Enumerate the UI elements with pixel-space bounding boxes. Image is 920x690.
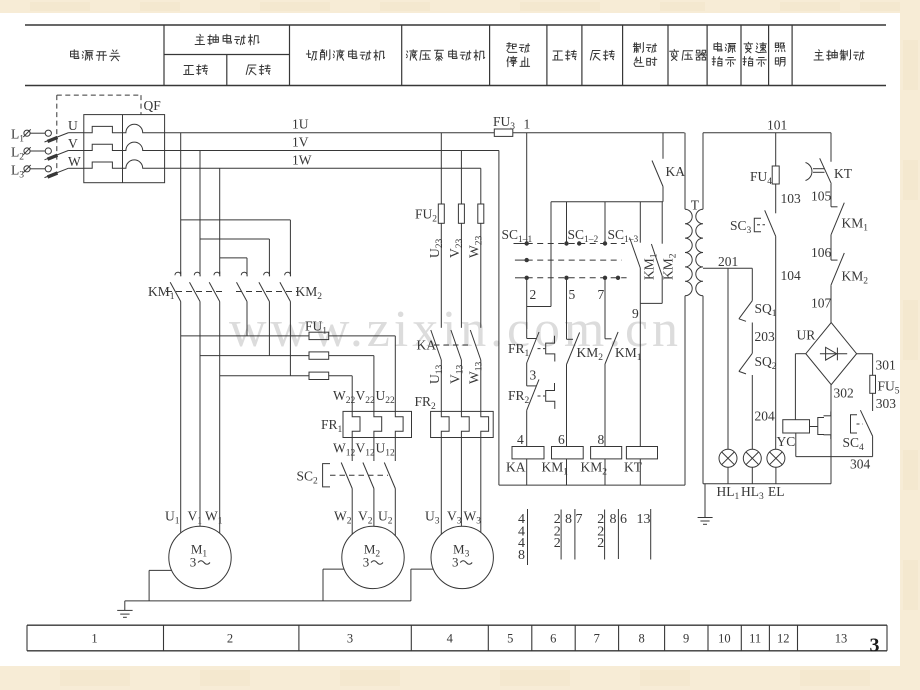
- motor M3: [431, 526, 493, 588]
- bottom column strip: [27, 624, 887, 626]
- contactor KM2 main contact 3: [285, 272, 291, 277]
- lamp EL: [767, 449, 785, 467]
- wire 204: [751, 375, 753, 449]
- wire 201 to HL1: [727, 268, 729, 449]
- wire KM2-1 to U node: [246, 302, 248, 336]
- svg-text:4: 4: [447, 632, 454, 646]
- svg-text:303: 303: [876, 396, 897, 411]
- wire 101 to FU4: [775, 133, 777, 166]
- FR2 heater element: [441, 411, 449, 437]
- wire 201: [703, 267, 752, 269]
- KM1 linkage: [166, 291, 226, 293]
- wire W22: [351, 376, 353, 412]
- wire V2: [373, 489, 375, 527]
- clutch coil YC: [783, 420, 810, 433]
- wire into QF phase 3: [69, 167, 84, 169]
- wire 1U after FU3 (line 1): [513, 132, 685, 134]
- wire number tally: [527, 509, 529, 565]
- FR1 heater element: [374, 411, 382, 437]
- wire 303: [872, 393, 874, 411]
- wire 2: [526, 278, 528, 339]
- fuse FU1 b: [309, 352, 329, 359]
- svg-text:6: 6: [550, 632, 556, 646]
- svg-text:9: 9: [683, 632, 689, 646]
- lamp HL1: [719, 449, 737, 467]
- svg-text:1W: 1W: [292, 152, 312, 167]
- svg-text:5: 5: [569, 287, 576, 302]
- wire KM2-3 to W node: [289, 302, 291, 376]
- wire U node to FU1a: [181, 335, 309, 337]
- svg-text:1V: 1V: [292, 135, 309, 150]
- contactor KM1 main contact 1: [175, 272, 181, 277]
- wire riser: [550, 202, 552, 307]
- wire 7: [604, 278, 606, 339]
- QF switch blade phase 2: [45, 150, 69, 159]
- wire 104: [775, 236, 777, 449]
- contactor KM1 main contact 3: [214, 272, 220, 277]
- SC1 contact dot: [577, 241, 581, 245]
- fuse FU1 c: [309, 372, 329, 379]
- wire coil bottom rail: [499, 484, 685, 486]
- svg-text:4: 4: [517, 432, 524, 447]
- svg-text:201: 201: [718, 254, 738, 269]
- wire W drop: [219, 168, 221, 274]
- QF thermal element: [84, 144, 123, 150]
- QF magnetic element: [123, 160, 165, 168]
- motor M2: [342, 526, 404, 588]
- svg-text:302: 302: [834, 386, 854, 401]
- fuse FU4: [772, 166, 779, 184]
- wire secondary bottom rail: [703, 483, 831, 485]
- KM2 NC brake contact: [831, 259, 838, 261]
- wire rail to SC1-2 column: [566, 202, 568, 244]
- FR1 NC contact: [527, 338, 537, 340]
- svg-text:10: 10: [718, 632, 731, 646]
- svg-text:105: 105: [811, 189, 832, 204]
- wire T secondary bottom: [702, 296, 704, 484]
- position switch SQ2: [739, 353, 752, 371]
- svg-text:6: 6: [620, 512, 627, 527]
- wire U23 upper: [440, 133, 442, 204]
- motor M1: [169, 526, 231, 588]
- svg-text:203: 203: [755, 329, 776, 344]
- wire 203: [751, 323, 753, 354]
- wire W node to FU1c: [220, 375, 309, 377]
- wire left rail from 1V: [498, 151, 500, 486]
- wire KT coil to rail: [639, 459, 641, 485]
- switch SC3: [754, 218, 761, 231]
- QF magnetic element: [123, 124, 165, 132]
- svg-text:3: 3: [452, 555, 459, 570]
- ground symbol motors: [124, 601, 126, 611]
- svg-text:13: 13: [835, 632, 848, 646]
- wire jog to column 2: [527, 306, 551, 308]
- fuse FU2 a: [438, 204, 444, 223]
- wire V22: [373, 356, 375, 412]
- position switch SQ1: [739, 301, 752, 319]
- svg-text:2: 2: [597, 536, 604, 551]
- svg-text:YC: YC: [777, 434, 796, 449]
- svg-text:3: 3: [870, 635, 880, 657]
- QF thermal element: [84, 162, 123, 168]
- wire 6: [566, 365, 568, 447]
- SC1 contact dot: [525, 241, 529, 245]
- SC2 blade 1: [341, 463, 352, 489]
- wire T secondary to 101: [702, 133, 704, 210]
- rectifier UR: [806, 323, 857, 385]
- relay coil KA: [512, 447, 544, 459]
- wire 8: [604, 364, 606, 447]
- KM1 NO aux contact: [630, 238, 641, 269]
- switch SC1 row 2: [515, 259, 527, 261]
- ground symbol control: [704, 484, 706, 518]
- wire rail to SC1-3 column: [604, 202, 606, 244]
- svg-text:8: 8: [598, 432, 605, 447]
- fuse FU2 b: [458, 204, 464, 223]
- svg-text:204: 204: [755, 409, 776, 424]
- fuse FU2 c: [478, 204, 484, 223]
- svg-text:9: 9: [632, 306, 639, 321]
- wire 201 to SQ1: [751, 268, 753, 300]
- svg-text:106: 106: [811, 245, 832, 260]
- svg-text:8: 8: [518, 548, 525, 563]
- page border bottom: [0, 666, 920, 690]
- wire control top rail: [551, 201, 663, 203]
- svg-text:8: 8: [565, 512, 572, 527]
- wire 105: [830, 184, 832, 207]
- svg-text:KA: KA: [506, 460, 526, 475]
- wire V13: [460, 360, 462, 411]
- FR1 trip flag: [546, 336, 555, 362]
- svg-text:KT: KT: [834, 166, 853, 181]
- clutch plates: [810, 426, 818, 428]
- KA linkage: [434, 344, 470, 346]
- fuse FU5: [870, 375, 876, 393]
- header table: [25, 24, 886, 26]
- circuit breaker QF box: [84, 115, 165, 183]
- wire W2: [351, 489, 353, 535]
- thermal relay FR1 heaters box: [343, 411, 412, 437]
- contactor KM2 main contact 1: [241, 272, 247, 277]
- wire V3: [460, 438, 462, 527]
- fuse FU1 a: [309, 332, 329, 339]
- svg-text:3: 3: [530, 368, 537, 383]
- fuse FU3: [494, 129, 513, 136]
- KM2 NO aux contact: [651, 244, 662, 276]
- svg-text:2: 2: [530, 287, 537, 302]
- wire V to KM2-2: [200, 238, 269, 240]
- SC1 contact dot: [564, 276, 568, 280]
- svg-text:103: 103: [781, 191, 802, 206]
- switch SC4: [851, 415, 858, 433]
- svg-text:5: 5: [507, 632, 513, 646]
- wire 3: [526, 363, 528, 386]
- svg-text:3: 3: [363, 555, 370, 570]
- svg-text:11: 11: [749, 632, 761, 646]
- wire YC bottom rail: [796, 456, 873, 458]
- KM2 NC interlock contact: [567, 338, 574, 340]
- wire W12: [351, 438, 353, 462]
- SC1 contact dot: [525, 276, 529, 280]
- svg-text:101: 101: [767, 118, 787, 133]
- svg-text:301: 301: [876, 358, 896, 373]
- svg-text:QF: QF: [144, 98, 162, 113]
- svg-text:KA: KA: [666, 164, 686, 179]
- QF switch blade phase 3: [45, 168, 69, 177]
- svg-text:3: 3: [347, 632, 353, 646]
- relay KA contact blade 3: [470, 330, 481, 360]
- svg-text:3: 3: [190, 555, 197, 570]
- FR1 heater element: [352, 411, 360, 437]
- contactor coil KM1: [552, 447, 584, 459]
- wire into QF phase 1: [69, 132, 84, 134]
- wire YC to rail: [795, 433, 797, 457]
- svg-text:EL: EL: [768, 484, 785, 499]
- FR1 heater element: [395, 411, 403, 437]
- QF thermal element: [84, 126, 123, 132]
- transformer T secondary winding: [696, 209, 703, 295]
- SC1 contact dot: [616, 276, 620, 280]
- FR2 heater element: [461, 411, 469, 437]
- switch SC2 actuator bracket: [323, 464, 330, 487]
- wire 1 to KA contact: [662, 133, 664, 159]
- svg-text:13: 13: [637, 512, 651, 527]
- wire U drop: [180, 133, 182, 275]
- time relay coil KT: [626, 447, 657, 459]
- SC2 linkage: [330, 474, 388, 476]
- svg-text:2: 2: [554, 536, 561, 551]
- SC2 blade 2: [363, 463, 374, 489]
- wire join aux contacts: [640, 302, 662, 304]
- SC1 contact dot: [603, 276, 607, 280]
- wire UR left: [795, 353, 805, 355]
- wire KM2-2 to V node: [268, 302, 270, 356]
- wire U3: [440, 438, 442, 535]
- svg-text:8: 8: [610, 512, 617, 527]
- time relay KT delayed NC contact: [806, 163, 812, 181]
- page border right: [900, 0, 920, 690]
- wire 1W: [165, 167, 481, 169]
- svg-text:1: 1: [524, 117, 531, 132]
- wire ground bus: [125, 600, 411, 602]
- wire line1 to T primary: [684, 133, 686, 210]
- wire rail to KM1 aux: [639, 202, 641, 243]
- wire V node to FU1b: [200, 355, 309, 357]
- wire 107: [830, 285, 832, 323]
- wire 5: [566, 278, 568, 340]
- svg-text:8: 8: [638, 632, 644, 646]
- SC1 contact dot: [564, 241, 568, 245]
- svg-text:1U: 1U: [292, 117, 309, 132]
- wire 101 to KT contact: [830, 133, 832, 162]
- wire 302: [830, 385, 832, 484]
- relay KA contact blade 1: [431, 330, 442, 360]
- wire KA coil to rail: [526, 459, 528, 485]
- wire 1V: [165, 150, 499, 152]
- FR2 NC contact: [527, 385, 537, 387]
- wire U12: [394, 438, 396, 462]
- KM2 linkage: [236, 291, 297, 293]
- lamp HL3: [743, 449, 761, 467]
- svg-text:U: U: [68, 118, 78, 133]
- svg-text:7: 7: [576, 512, 583, 527]
- wire W3: [480, 438, 482, 533]
- wire KM2 coil to rail: [604, 459, 606, 485]
- svg-text:6: 6: [558, 432, 565, 447]
- svg-text:2: 2: [227, 632, 233, 646]
- switch SC1 row 1: [514, 243, 527, 245]
- svg-text:UR: UR: [797, 328, 816, 343]
- contactor coil KM2: [591, 447, 622, 459]
- svg-text:T: T: [691, 198, 700, 213]
- wire rail to KM2 aux: [661, 202, 663, 244]
- contactor KM2 main contact 2: [264, 272, 270, 277]
- switch SC1 row 3: [515, 277, 527, 279]
- wire 1 drop to SC1: [526, 133, 528, 244]
- wire U1: [180, 302, 182, 533]
- QF dashed enclosure left: [56, 95, 58, 173]
- svg-text:W: W: [68, 154, 81, 169]
- svg-text:107: 107: [811, 296, 832, 311]
- SC2 blade 3: [384, 463, 395, 489]
- wire M3 ground: [411, 568, 434, 570]
- wire V12: [373, 438, 375, 462]
- svg-text:12: 12: [777, 632, 790, 646]
- FR2 trip flag: [546, 383, 555, 409]
- wire V1: [199, 302, 201, 527]
- wire 101: [703, 132, 831, 134]
- wire W13: [480, 360, 482, 411]
- QF dashed enclosure stub: [140, 95, 142, 115]
- wire V drop: [199, 151, 201, 275]
- svg-text:104: 104: [781, 268, 802, 283]
- svg-text:KA: KA: [417, 338, 437, 353]
- wire UR right: [857, 353, 873, 355]
- page border top: [0, 0, 920, 13]
- wire 4: [526, 410, 528, 446]
- wire L1 to switch: [30, 132, 45, 134]
- wire W23 upper: [480, 168, 482, 204]
- QF dashed enclosure top: [57, 94, 141, 96]
- SC1 contact dot: [525, 258, 529, 262]
- svg-text:1: 1: [91, 632, 97, 646]
- thermal relay FR2 heaters box: [431, 411, 494, 437]
- relay KA contact blade 2: [451, 330, 462, 360]
- KM1 NC interlock contact: [605, 338, 612, 340]
- wire 103: [775, 184, 777, 213]
- KM1 NC brake contact: [831, 206, 838, 208]
- wire U13: [440, 360, 442, 411]
- wire into QF phase 2: [69, 150, 84, 152]
- relay KA NO contact: [652, 161, 663, 187]
- wire M2 ground: [323, 568, 344, 570]
- wire 301: [872, 354, 874, 376]
- FR2 heater element: [481, 411, 489, 437]
- wire L2 to switch: [30, 150, 45, 152]
- wire 106: [830, 235, 832, 260]
- SC1 contact dot: [603, 241, 607, 245]
- wire U22: [394, 336, 396, 412]
- wire V23 upper: [460, 151, 462, 205]
- wire M1 ground: [149, 569, 172, 571]
- QF switch blade phase 1: [45, 133, 69, 142]
- contactor KM1 main contact 2: [194, 272, 200, 277]
- wire U to KM2-3: [181, 219, 291, 221]
- wire 9: [639, 303, 641, 446]
- wire L3 to switch: [30, 168, 45, 170]
- wire W to KM2-1: [220, 257, 247, 259]
- wire W1: [219, 302, 221, 534]
- svg-text:7: 7: [598, 287, 605, 302]
- wire KM1 coil to rail: [566, 459, 568, 485]
- wire U2: [394, 489, 396, 536]
- QF magnetic element: [123, 142, 165, 150]
- wire 1U: [165, 132, 495, 134]
- svg-text:304: 304: [850, 457, 871, 472]
- wire T primary to rail: [684, 296, 686, 485]
- transformer T primary winding: [685, 209, 692, 295]
- svg-text:V: V: [68, 136, 78, 151]
- svg-text:7: 7: [594, 632, 600, 646]
